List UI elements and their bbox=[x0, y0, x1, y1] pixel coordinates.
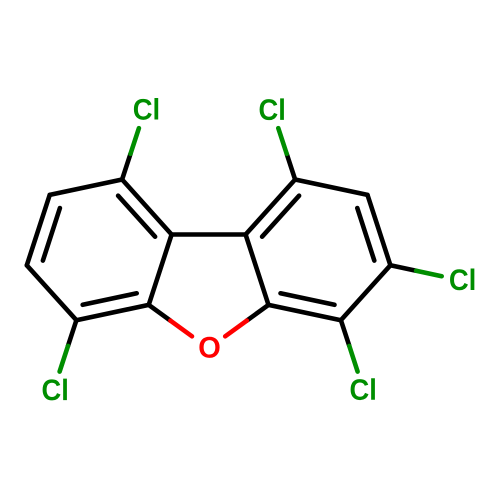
bond C4=C4a inner line bbox=[281, 293, 335, 305]
bond C9a-C9 bbox=[122, 180, 172, 235]
bond C4a-O black half bbox=[247, 305, 269, 321]
bond C3-Cl3 black half bbox=[390, 265, 416, 270]
atom label O bbox=[199, 337, 219, 358]
bond C4a-C9b bbox=[246, 235, 269, 305]
bond C2=C3 inner line bbox=[357, 208, 374, 261]
bond C9b-C1 bbox=[246, 180, 296, 235]
bond C9-C8 bbox=[50, 180, 122, 195]
bond C8-C7 bbox=[27, 195, 50, 265]
bond C9a-C9b central bbox=[172, 232, 246, 237]
bond C4-Cl4 green half bbox=[349, 346, 357, 372]
bond C5a-O red half bbox=[170, 321, 192, 337]
bond C9b=C1 inner line bbox=[262, 196, 299, 237]
bond C8=C7 inner line bbox=[43, 208, 60, 261]
atom label Cl9 bbox=[134, 98, 158, 120]
bond C6=C5a inner line bbox=[83, 293, 137, 305]
bond C1-Cl1 black half bbox=[287, 154, 295, 180]
atom label Cl6 bbox=[43, 379, 67, 401]
bond C6-C5a bbox=[76, 305, 148, 320]
bond C2-C3 bbox=[368, 195, 391, 265]
bond C4-C4a bbox=[269, 305, 341, 320]
bond C4a-O red half bbox=[225, 321, 247, 337]
bond C9-Cl9 black half bbox=[122, 154, 130, 180]
bond C5a-O black half bbox=[149, 305, 171, 321]
bond C9a=C9 inner line bbox=[118, 196, 155, 237]
bond C6-Cl6 black half bbox=[68, 320, 76, 346]
bond C3-C4 bbox=[341, 265, 391, 320]
bond C5a-C9a bbox=[149, 235, 172, 305]
bond C9-Cl9 green half bbox=[131, 128, 139, 154]
atom label Cl3 bbox=[450, 269, 474, 291]
atom label Cl1 bbox=[260, 98, 284, 120]
bond C1-C2 bbox=[295, 180, 367, 195]
bond C4-Cl4 black half bbox=[341, 320, 349, 346]
bond C3-Cl3 green half bbox=[416, 271, 442, 277]
bond C1-Cl1 green half bbox=[278, 128, 286, 154]
bond C6-Cl6 green half bbox=[60, 346, 68, 372]
atom label Cl4 bbox=[351, 378, 375, 400]
bond C7-C6 bbox=[27, 265, 77, 320]
